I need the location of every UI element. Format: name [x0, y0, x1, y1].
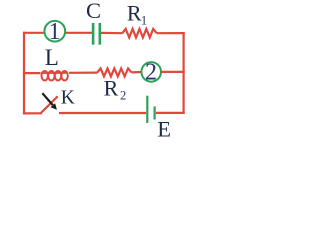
svg-text:E: E	[157, 117, 171, 142]
wire battery to bottom-right corner	[156, 112, 185, 114]
wire circle1 to capacitor	[65, 32, 92, 34]
resistor R1 zigzag	[122, 29, 156, 38]
wire bottom-left corner to switch pivot	[23, 112, 42, 114]
wire switch to battery	[59, 112, 146, 114]
switch K blade	[41, 96, 58, 113]
svg-text:1: 1	[49, 19, 61, 45]
wire R1 to top-right corner	[157, 32, 185, 34]
wire left vertical	[23, 32, 25, 115]
resistor R2 zigzag	[97, 68, 131, 76]
wire capacitor to resistor R1	[101, 32, 123, 34]
wire circle2 to right vertical	[161, 71, 185, 73]
svg-text:R: R	[127, 1, 142, 26]
wire inductor to resistor R2	[69, 71, 97, 73]
svg-text:K: K	[61, 87, 75, 108]
capacitor C left plate	[92, 23, 95, 45]
svg-text:C: C	[86, 0, 101, 23]
switch K closing arrow	[42, 93, 57, 110]
wire top-left corner to ammeter 1	[23, 32, 45, 34]
svg-text:L: L	[45, 45, 59, 70]
capacitor C right plate	[99, 23, 102, 45]
svg-text:2: 2	[120, 89, 126, 103]
inductor L coil	[41, 71, 68, 80]
svg-text:1: 1	[141, 14, 147, 28]
svg-text:2: 2	[145, 59, 157, 85]
wire middle-left to inductor	[23, 72, 41, 74]
wire R2 to ammeter 2	[132, 71, 142, 74]
ammeter circle 1	[44, 21, 65, 42]
ammeter circle 2	[141, 62, 161, 82]
battery E long plate	[146, 96, 148, 123]
wire right vertical	[183, 32, 185, 114]
battery E short plate	[154, 106, 156, 119]
svg-text:R: R	[104, 75, 119, 100]
